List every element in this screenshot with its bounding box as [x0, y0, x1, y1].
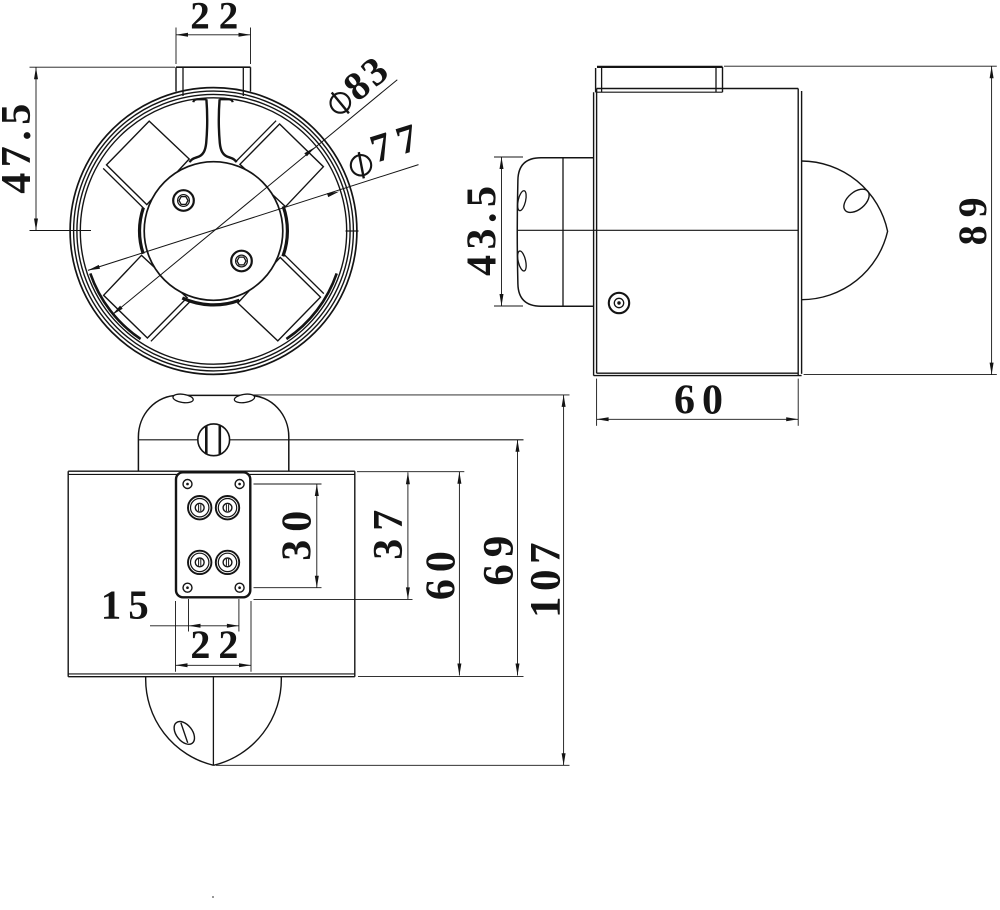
hub screw lower (hex socket)	[231, 251, 252, 272]
dimension 69 lines	[358, 440, 524, 677]
diameter symbol 77	[351, 152, 371, 178]
dimension 60 side lines	[597, 379, 799, 426]
fan body bottom view	[68, 471, 355, 677]
dome seam line	[138, 439, 523, 441]
dimension 43.5 lines	[494, 157, 523, 306]
terminal 1	[188, 496, 211, 519]
motor vent slot upper	[516, 190, 528, 212]
svg-text:69: 69	[476, 529, 523, 586]
diameter leader 83	[112, 80, 397, 315]
svg-text:22: 22	[190, 0, 247, 37]
speck	[212, 896, 214, 898]
dimension text 60 side	[674, 378, 730, 424]
fan duct inner ring	[80, 98, 346, 364]
dimension text 107	[523, 537, 570, 618]
diameter symbol 83	[331, 93, 351, 114]
fan duct outer flange circle	[70, 88, 357, 375]
nose cone hole	[840, 185, 874, 217]
dimension text 22 bottom	[190, 622, 246, 667]
dimension 47.5 lines	[30, 67, 176, 230]
svg-text:47.5: 47.5	[0, 98, 40, 194]
terminal 3	[188, 551, 211, 574]
terminal 4	[216, 551, 239, 574]
motor vent slot lower	[516, 250, 528, 272]
svg-text:60: 60	[419, 544, 465, 600]
dimension 30 lines	[254, 484, 322, 588]
hub gap arc S	[182, 298, 239, 305]
svg-text:30: 30	[275, 503, 321, 561]
terminal 2	[216, 496, 239, 519]
fan duct ring 2	[74, 91, 354, 371]
dimension 22 lines	[176, 28, 251, 65]
svg-text:89: 89	[950, 189, 995, 245]
hub gap arc E	[283, 206, 288, 256]
dimension text 43.5	[460, 181, 506, 276]
fan blade SE	[238, 254, 324, 341]
fan blade SW	[104, 255, 191, 341]
svg-text:107: 107	[523, 537, 570, 618]
dimension 60 bottom lines	[357, 472, 464, 676]
dome vent left	[172, 393, 193, 404]
rim center tick right	[346, 230, 359, 232]
dimension text 47.5	[0, 98, 40, 194]
dimension 22 bottom lines	[176, 601, 252, 672]
blade tip arc lower-right	[286, 273, 336, 339]
dimension text 69	[476, 529, 523, 586]
mounting tab side	[596, 67, 723, 92]
svg-text:22: 22	[190, 622, 246, 667]
fan duct ring 3	[77, 94, 350, 367]
dome screw circle	[198, 424, 230, 456]
dimension text 30	[275, 503, 321, 561]
dimension 15 lines	[150, 599, 239, 632]
dimension text 60 bottom	[419, 544, 465, 600]
terminal box screw top-right	[235, 480, 244, 489]
terminal box screw bottom-left	[183, 583, 192, 592]
terminal box screw bottom-right	[235, 583, 244, 592]
mounting tab front	[176, 67, 251, 96]
svg-text:60: 60	[674, 378, 730, 424]
blade tip arc lower-left	[90, 273, 140, 339]
terminal box	[176, 472, 250, 597]
dimension text 89	[950, 189, 995, 245]
fan blade NE	[236, 121, 323, 207]
fan hub circle	[144, 162, 283, 301]
diameter text 77	[365, 112, 430, 171]
diameter text 83	[335, 45, 399, 109]
motor support stem	[190, 99, 237, 162]
svg-text:15: 15	[101, 582, 156, 628]
nose cone bottom view	[146, 677, 282, 765]
dome vent right	[234, 393, 255, 404]
svg-text:43.5: 43.5	[460, 181, 506, 276]
motor housing side	[517, 158, 593, 306]
dimension 107 lines	[216, 395, 570, 765]
terminal box screw top-left	[183, 480, 192, 489]
motor dome bottom view	[138, 395, 288, 471]
dimension 89 lines	[724, 66, 997, 374]
fan body side	[594, 89, 802, 376]
body screw side	[609, 293, 629, 313]
dimension text 37	[366, 502, 412, 560]
nose cone slot	[170, 718, 199, 748]
svg-text:37: 37	[366, 502, 412, 560]
diameter leader 77	[88, 165, 419, 271]
fan blade NW	[103, 121, 189, 208]
hub screw upper (hex socket)	[173, 190, 194, 211]
body seam line	[518, 229, 798, 231]
hub gap arc W	[140, 208, 144, 254]
dimension text 22	[190, 0, 247, 37]
dimension text 15	[101, 582, 156, 628]
dimension 37 lines	[254, 472, 413, 599]
hub nose cone side	[802, 161, 888, 300]
